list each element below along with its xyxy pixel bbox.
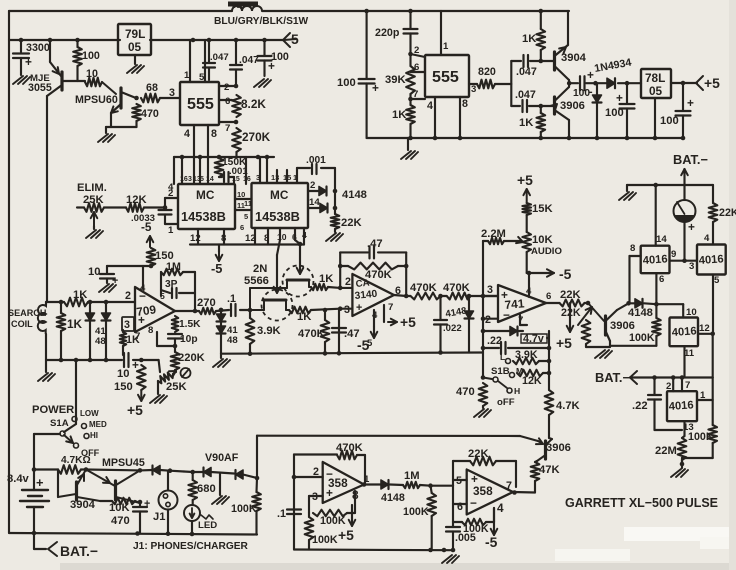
svg-text:10K: 10K (109, 502, 130, 514)
svg-text:-5: -5 (559, 266, 572, 282)
svg-text:.005: .005 (455, 532, 476, 544)
svg-text:470K: 470K (298, 328, 325, 340)
svg-text:78L: 78L (645, 71, 665, 85)
svg-text:+5: +5 (517, 172, 533, 188)
svg-text:100: 100 (337, 77, 356, 89)
svg-text:14: 14 (656, 234, 667, 245)
svg-text:3: 3 (471, 84, 476, 95)
svg-text:.047: .047 (210, 52, 229, 63)
svg-text:S1B: S1B (491, 366, 510, 377)
svg-text:−: − (326, 467, 333, 481)
svg-text:4016: 4016 (642, 253, 668, 267)
svg-text:6: 6 (546, 291, 551, 302)
svg-text:4148: 4148 (381, 492, 405, 504)
svg-text:+: + (268, 59, 275, 73)
svg-text:470K: 470K (336, 442, 363, 454)
svg-text:47K: 47K (539, 464, 560, 476)
svg-text:4148: 4148 (628, 307, 653, 319)
svg-text:3906: 3906 (546, 442, 571, 454)
svg-text:10: 10 (277, 232, 287, 242)
svg-text:+: + (144, 498, 150, 510)
svg-text:MC: MC (270, 188, 289, 202)
svg-text:2: 2 (310, 180, 315, 191)
svg-text:12: 12 (699, 323, 710, 334)
svg-text:14: 14 (309, 197, 320, 208)
svg-text:1.5K: 1.5K (179, 319, 201, 330)
svg-text:100: 100 (605, 107, 624, 119)
svg-text:2: 2 (224, 82, 229, 93)
svg-text:8.2K: 8.2K (241, 97, 266, 111)
svg-text:4: 4 (184, 128, 190, 140)
svg-text:1M: 1M (404, 470, 420, 482)
svg-text:14538B: 14538B (255, 209, 300, 224)
svg-text:+5: +5 (704, 75, 720, 91)
svg-text:LED: LED (198, 520, 217, 531)
svg-text:10K: 10K (532, 234, 553, 246)
svg-text:+: + (687, 96, 694, 110)
svg-text:.022: .022 (443, 323, 462, 334)
svg-text:000: 000 (232, 1, 245, 10)
svg-text:5: 5 (244, 212, 248, 221)
svg-text:79L: 79L (125, 27, 145, 41)
svg-text:+: + (587, 68, 594, 82)
svg-text:39K: 39K (385, 74, 406, 86)
svg-text:V90AF: V90AF (205, 452, 239, 464)
svg-text:100K: 100K (629, 332, 655, 344)
svg-text:6: 6 (414, 62, 419, 73)
svg-text:CA: CA (355, 278, 370, 290)
svg-text:3: 3 (188, 176, 192, 183)
svg-text:6: 6 (457, 501, 463, 513)
svg-text:709: 709 (135, 302, 157, 319)
svg-text:BLU/GRY/BLK/S1W: BLU/GRY/BLK/S1W (214, 16, 309, 27)
svg-text:1K: 1K (519, 117, 533, 129)
svg-text:11: 11 (684, 348, 695, 359)
svg-text:05: 05 (128, 40, 142, 54)
svg-text:16: 16 (243, 176, 251, 183)
svg-text:1K: 1K (522, 33, 536, 45)
svg-text:-5: -5 (141, 220, 152, 234)
svg-text:2: 2 (666, 381, 671, 392)
svg-text:1: 1 (168, 225, 174, 236)
svg-text:6: 6 (240, 223, 244, 232)
svg-text:+5: +5 (556, 335, 572, 351)
svg-text:270: 270 (197, 297, 216, 309)
svg-text:1K: 1K (319, 273, 333, 285)
svg-text:3904: 3904 (70, 499, 96, 511)
svg-text:+: + (372, 81, 379, 95)
svg-text:5: 5 (200, 176, 204, 183)
svg-text:22K: 22K (341, 217, 362, 229)
svg-text:4.7K: 4.7K (556, 400, 580, 412)
svg-text:680: 680 (197, 483, 216, 495)
svg-text:4016: 4016 (698, 253, 724, 267)
svg-text:3: 3 (344, 304, 350, 316)
svg-text:2: 2 (414, 45, 419, 56)
svg-text:100: 100 (573, 88, 590, 99)
svg-text:1K: 1K (73, 289, 87, 301)
svg-text:7: 7 (506, 480, 512, 492)
svg-text:+5: +5 (127, 402, 143, 418)
svg-text:68: 68 (146, 82, 158, 94)
svg-text:2: 2 (345, 276, 351, 288)
svg-text:BAT.−: BAT.− (595, 370, 630, 385)
svg-text:220K: 220K (178, 352, 205, 364)
svg-text:MPSU45: MPSU45 (102, 457, 145, 469)
svg-text:1: 1 (293, 173, 297, 182)
svg-text:7: 7 (413, 89, 418, 100)
svg-text:100K: 100K (231, 503, 257, 515)
svg-text:3: 3 (169, 87, 175, 99)
svg-text:+: + (326, 486, 333, 500)
svg-text:7: 7 (225, 123, 230, 134)
svg-text:−: − (503, 308, 510, 322)
svg-text:ELIM.: ELIM. (77, 182, 107, 194)
svg-text:5: 5 (714, 275, 720, 286)
svg-text:10: 10 (86, 68, 98, 80)
svg-text:3.9K: 3.9K (515, 349, 538, 361)
svg-text:BAT.−: BAT.− (60, 543, 98, 559)
svg-text:+: + (36, 475, 43, 490)
svg-text:555: 555 (432, 68, 459, 86)
svg-text:470: 470 (111, 515, 130, 527)
svg-text:8: 8 (462, 98, 468, 110)
svg-text:8: 8 (211, 128, 217, 140)
svg-text:5: 5 (199, 72, 205, 83)
svg-text:+: + (356, 302, 362, 314)
svg-text:J1: PHONES/CHARGER: J1: PHONES/CHARGER (133, 541, 249, 552)
svg-text:22K: 22K (561, 307, 581, 319)
svg-text:05: 05 (649, 84, 663, 98)
svg-text:+5: +5 (400, 314, 416, 330)
svg-text:4016: 4016 (668, 399, 694, 413)
svg-text:-5: -5 (485, 534, 498, 550)
svg-text:555: 555 (187, 95, 214, 113)
svg-text:MED: MED (89, 420, 107, 429)
svg-text:1K: 1K (67, 317, 83, 331)
svg-text:.047: .047 (516, 66, 537, 78)
svg-text:12: 12 (245, 233, 256, 244)
svg-text:470K: 470K (410, 282, 437, 294)
svg-text:8: 8 (221, 233, 227, 244)
svg-text:.47: .47 (367, 238, 383, 250)
svg-text:4: 4 (427, 100, 433, 112)
svg-text:9: 9 (671, 249, 676, 260)
svg-text:16: 16 (180, 176, 188, 183)
svg-text:+: + (688, 220, 695, 234)
svg-text:-5: -5 (211, 261, 222, 276)
svg-text:MPSU60: MPSU60 (75, 94, 118, 106)
svg-text:2: 2 (485, 314, 491, 326)
svg-text:48: 48 (227, 335, 238, 346)
svg-text:oFF: oFF (497, 397, 515, 408)
svg-text:3300: 3300 (26, 42, 50, 54)
svg-text:.1: .1 (277, 508, 286, 520)
svg-text:H: H (514, 386, 520, 396)
svg-text:1: 1 (443, 41, 449, 52)
svg-text:3055: 3055 (28, 82, 52, 94)
svg-text:AUDIO: AUDIO (531, 246, 562, 257)
svg-text:14: 14 (206, 176, 214, 183)
svg-text:10: 10 (117, 368, 129, 380)
svg-text:14538B: 14538B (181, 209, 226, 224)
svg-text:15K: 15K (532, 203, 553, 215)
svg-text:4016: 4016 (671, 325, 697, 339)
svg-text:COIL: COIL (11, 319, 33, 329)
svg-text:8: 8 (630, 243, 636, 254)
svg-text:13: 13 (271, 173, 279, 182)
svg-text:12: 12 (190, 233, 201, 244)
svg-text:GARRETT XL−500 PULSE: GARRETT XL−500 PULSE (565, 495, 718, 510)
svg-text:3: 3 (689, 261, 694, 272)
svg-text:8: 8 (148, 325, 154, 336)
svg-text:1K: 1K (297, 311, 311, 323)
svg-text:4: 4 (168, 182, 174, 193)
svg-text:3: 3 (124, 319, 130, 331)
svg-text:J1: J1 (153, 511, 165, 523)
svg-text:1: 1 (700, 390, 706, 401)
svg-text:22K: 22K (719, 207, 736, 219)
svg-text:22M: 22M (655, 445, 677, 457)
svg-text:1K: 1K (392, 109, 406, 121)
svg-text:L: L (500, 352, 505, 362)
svg-text:-: - (589, 86, 593, 98)
svg-text:100K: 100K (403, 506, 429, 518)
svg-text:7: 7 (685, 380, 690, 391)
svg-text:POWER: POWER (32, 404, 74, 416)
svg-text:25K: 25K (166, 381, 187, 393)
svg-text:100: 100 (660, 115, 679, 127)
svg-text:.22: .22 (632, 400, 648, 412)
svg-text:5: 5 (367, 338, 373, 349)
svg-text:.22: .22 (487, 335, 502, 347)
svg-text:820: 820 (478, 66, 496, 78)
svg-text:22K: 22K (468, 448, 489, 460)
svg-text:.047: .047 (239, 55, 259, 66)
svg-text:10p: 10p (180, 334, 198, 345)
svg-text:3.9K: 3.9K (257, 325, 281, 337)
svg-text:2.2M: 2.2M (481, 228, 506, 240)
svg-text:220p: 220p (375, 27, 400, 39)
svg-text:3906: 3906 (610, 320, 635, 332)
svg-text:2: 2 (125, 290, 131, 302)
svg-text:S1A: S1A (50, 418, 69, 429)
svg-text:2N: 2N (253, 263, 267, 275)
svg-text:22K: 22K (560, 289, 581, 301)
svg-text:3906: 3906 (560, 100, 585, 112)
svg-text:−: − (470, 496, 477, 510)
svg-text:8.4v: 8.4v (7, 473, 30, 485)
svg-text:LOW: LOW (80, 409, 99, 418)
svg-text:5566: 5566 (244, 275, 269, 287)
svg-text:7: 7 (388, 302, 393, 313)
svg-text:150: 150 (114, 381, 133, 393)
svg-text:+5: +5 (338, 527, 354, 543)
svg-text:15: 15 (283, 173, 291, 182)
svg-text:+: + (25, 55, 32, 69)
svg-text:4148: 4148 (342, 189, 367, 201)
svg-text:470: 470 (141, 108, 159, 120)
svg-text:270K: 270K (242, 130, 271, 144)
svg-text:4: 4 (704, 233, 710, 244)
svg-text:3904: 3904 (561, 52, 587, 64)
svg-text:BAT.−: BAT.− (673, 152, 708, 167)
svg-text:3: 3 (256, 173, 260, 182)
svg-text:100K: 100K (688, 431, 714, 443)
svg-text:48: 48 (95, 336, 106, 347)
svg-text:470K: 470K (443, 282, 470, 294)
svg-text:1K: 1K (126, 334, 140, 346)
svg-text:4: 4 (497, 501, 504, 515)
svg-text:100K: 100K (312, 534, 338, 546)
svg-text:8: 8 (264, 233, 270, 244)
svg-text:100: 100 (82, 50, 100, 62)
svg-text:+: + (471, 472, 478, 486)
svg-text:6: 6 (225, 96, 230, 107)
svg-text:12K: 12K (522, 375, 542, 387)
svg-text:100K: 100K (320, 515, 346, 527)
svg-text:MC: MC (196, 188, 215, 202)
svg-text:1: 1 (184, 70, 190, 81)
svg-text:10: 10 (88, 266, 100, 278)
svg-text:6: 6 (659, 274, 664, 285)
svg-text:470: 470 (456, 386, 475, 398)
svg-text:15: 15 (232, 176, 240, 183)
svg-text:10: 10 (237, 190, 245, 199)
svg-text:HI: HI (90, 431, 98, 440)
svg-text:3: 3 (487, 284, 493, 296)
svg-text:.047: .047 (515, 89, 536, 101)
